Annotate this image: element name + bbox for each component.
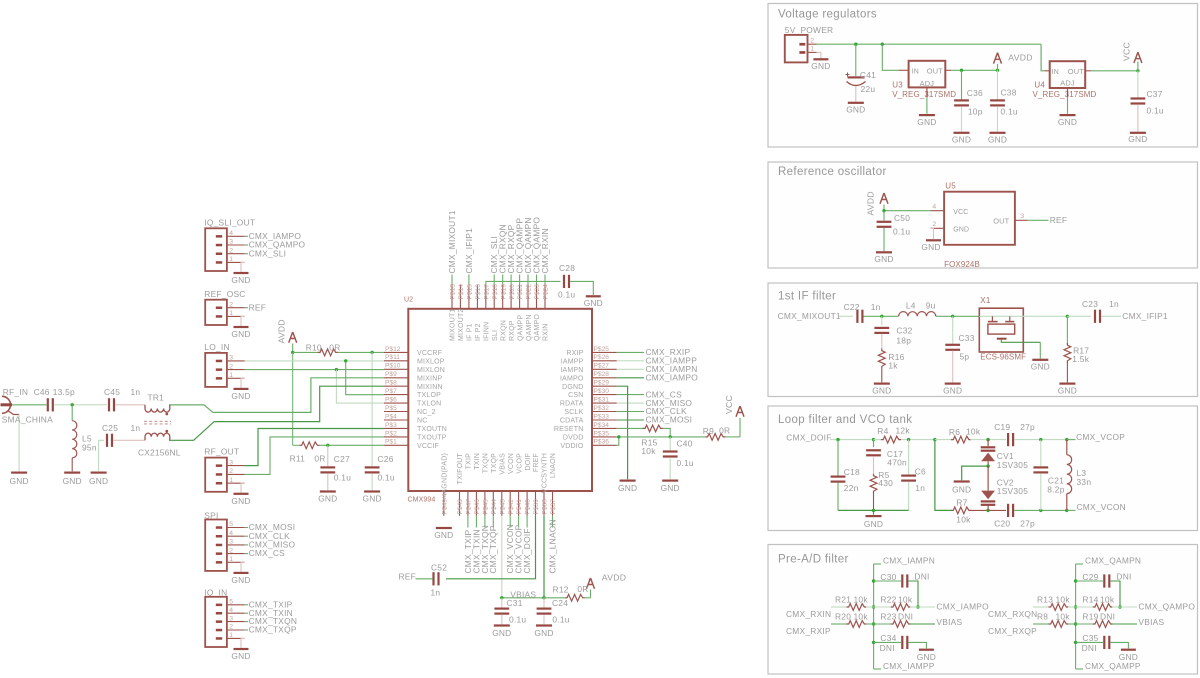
svg-text:5: 5 — [229, 599, 233, 606]
svg-text:95n: 95n — [82, 443, 97, 453]
svg-text:IN: IN — [1052, 69, 1059, 76]
svg-text:REF: REF — [1050, 215, 1068, 225]
svg-text:C37: C37 — [1147, 89, 1163, 99]
svg-text:QAMPO: QAMPO — [534, 314, 541, 341]
svg-text:VBIAS: VBIAS — [936, 617, 962, 627]
svg-text:CMX_RXIN: CMX_RXIN — [540, 228, 550, 273]
svg-text:IN: IN — [912, 68, 919, 75]
svg-text:FREF: FREF — [533, 453, 540, 472]
svg-text:R23: R23 — [880, 611, 896, 621]
svg-text:C22: C22 — [844, 302, 860, 312]
svg-text:MIXLOP: MIXLOP — [417, 358, 445, 365]
svg-text:GND: GND — [618, 483, 637, 493]
svg-text:TXOUTP: TXOUTP — [417, 435, 447, 442]
svg-text:1: 1 — [810, 46, 814, 53]
svg-text:P$16: P$16 — [475, 284, 482, 300]
svg-text:RXQP: RXQP — [509, 320, 516, 341]
svg-text:Loop filter and VCO tank: Loop filter and VCO tank — [778, 414, 912, 426]
svg-text:U4: U4 — [1034, 81, 1045, 90]
svg-text:V_REG_317SMD: V_REG_317SMD — [892, 90, 956, 99]
svg-text:CMX_IAMPP: CMX_IAMPP — [883, 661, 935, 671]
svg-text:P$34: P$34 — [594, 422, 610, 429]
svg-text:AVDD: AVDD — [866, 191, 876, 215]
svg-text:CMX_IAMPN: CMX_IAMPN — [883, 555, 935, 565]
svg-text:Reference oscillator: Reference oscillator — [778, 166, 887, 178]
svg-text:GND: GND — [952, 135, 971, 145]
svg-text:P$13: P$13 — [450, 284, 457, 300]
svg-text:VBIAS: VBIAS — [499, 453, 506, 475]
svg-text:VBIAS: VBIAS — [1138, 617, 1164, 627]
svg-text:1SV305: 1SV305 — [997, 486, 1028, 496]
svg-text:C30: C30 — [880, 572, 896, 582]
svg-text:RXIP: RXIP — [566, 350, 583, 357]
svg-text:DNI: DNI — [914, 571, 929, 581]
svg-text:10k: 10k — [854, 594, 869, 604]
svg-text:C40: C40 — [677, 439, 693, 449]
svg-text:P$5: P$5 — [385, 405, 397, 412]
svg-text:4: 4 — [229, 607, 233, 614]
svg-text:1.5k: 1.5k — [1072, 354, 1089, 364]
svg-text:1k: 1k — [888, 361, 898, 371]
svg-text:P$12: P$12 — [385, 346, 401, 353]
svg-text:DNI: DNI — [880, 643, 895, 653]
svg-text:0.1u: 0.1u — [893, 227, 910, 237]
svg-text:1n: 1n — [431, 588, 441, 598]
svg-text:R13: R13 — [1037, 594, 1053, 604]
svg-text:GND: GND — [661, 483, 680, 493]
svg-text:13.5p: 13.5p — [53, 387, 75, 397]
svg-text:DNI: DNI — [1082, 643, 1097, 653]
svg-text:C41: C41 — [860, 70, 876, 80]
svg-text:OUT: OUT — [1068, 67, 1084, 76]
svg-text:P$32: P$32 — [594, 405, 610, 412]
svg-text:1: 1 — [229, 256, 233, 263]
svg-text:R20: R20 — [835, 611, 851, 621]
svg-text:OUT: OUT — [993, 217, 1009, 226]
svg-text:P$1: P$1 — [385, 439, 397, 446]
svg-text:CMX_TXQP: CMX_TXQP — [488, 525, 498, 573]
svg-text:CMX_IFIP1: CMX_IFIP1 — [1122, 311, 1168, 321]
svg-text:1n: 1n — [131, 423, 141, 433]
svg-text:SLI: SLI — [492, 330, 499, 341]
svg-text:GND: GND — [362, 494, 381, 504]
svg-text:P$43: P$43 — [499, 499, 506, 515]
svg-text:VCCRF: VCCRF — [417, 350, 442, 357]
svg-text:1: 1 — [229, 310, 233, 317]
svg-text:27p: 27p — [1020, 518, 1035, 528]
svg-text:22n: 22n — [844, 483, 859, 493]
svg-text:0.1u: 0.1u — [1147, 106, 1164, 116]
svg-text:TXIFOUT: TXIFOUT — [457, 452, 464, 484]
svg-text:P$49/4: P$49/4 — [441, 493, 448, 514]
svg-text:P$33: P$33 — [594, 413, 610, 420]
svg-text:R11: R11 — [290, 454, 306, 464]
svg-text:CMX_MIXOUT1: CMX_MIXOUT1 — [778, 311, 841, 321]
svg-text:P$31: P$31 — [594, 397, 610, 404]
svg-text:P$28: P$28 — [594, 371, 610, 378]
svg-text:CMX_IFIP1: CMX_IFIP1 — [464, 228, 474, 274]
svg-text:0.1u: 0.1u — [677, 458, 694, 468]
svg-text:C52: C52 — [431, 563, 447, 573]
svg-text:R9: R9 — [703, 426, 714, 436]
svg-text:GND: GND — [872, 386, 891, 396]
svg-text:P$14: P$14 — [458, 284, 465, 300]
svg-text:0R: 0R — [719, 426, 730, 436]
svg-text:0.1u: 0.1u — [509, 615, 526, 625]
svg-text:GND: GND — [811, 61, 830, 71]
svg-text:VDDIO: VDDIO — [560, 443, 584, 450]
svg-text:GND: GND — [953, 227, 969, 234]
svg-text:DNI: DNI — [1116, 571, 1131, 581]
svg-text:OUT: OUT — [927, 66, 943, 75]
svg-text:C50: C50 — [894, 213, 910, 223]
svg-text:CSN: CSN — [568, 392, 583, 399]
svg-text:P$30: P$30 — [594, 388, 610, 395]
svg-text:P$6: P$6 — [385, 397, 397, 404]
svg-text:CMX_QAMPN: CMX_QAMPN — [1085, 555, 1141, 565]
svg-text:GND: GND — [63, 476, 82, 486]
svg-text:CMX_RXQP: CMX_RXQP — [988, 626, 1037, 636]
svg-text:R6: R6 — [949, 427, 960, 437]
svg-text:QAMPP: QAMPP — [517, 315, 524, 341]
svg-text:C25: C25 — [102, 423, 118, 433]
svg-text:GND: GND — [1031, 362, 1050, 372]
svg-text:1n: 1n — [1109, 299, 1119, 309]
svg-text:GND: GND — [9, 476, 28, 486]
svg-text:RF_OUT: RF_OUT — [204, 447, 239, 457]
svg-text:10k: 10k — [966, 426, 981, 436]
svg-text:GND: GND — [231, 275, 250, 285]
svg-text:1n: 1n — [871, 302, 881, 312]
svg-text:DGND: DGND — [562, 384, 583, 391]
svg-text:0R: 0R — [329, 342, 340, 352]
svg-text:GND: GND — [534, 628, 553, 638]
svg-text:R14: R14 — [1082, 594, 1098, 604]
svg-text:C31: C31 — [507, 598, 523, 608]
svg-text:GND: GND — [231, 496, 250, 506]
svg-text:RF_IN: RF_IN — [3, 387, 28, 397]
svg-text:P$39: P$39 — [533, 499, 540, 515]
svg-text:1: 1 — [229, 372, 233, 379]
svg-text:LO_IN: LO_IN — [204, 342, 229, 352]
svg-text:CMX_MOSI: CMX_MOSI — [646, 415, 693, 425]
svg-text:NC: NC — [417, 418, 428, 425]
svg-text:V_REG_317SMD: V_REG_317SMD — [1033, 90, 1097, 99]
svg-text:CMX_DOIF: CMX_DOIF — [522, 528, 532, 573]
svg-text:P$45: P$45 — [483, 499, 490, 515]
svg-text:GND: GND — [231, 329, 250, 339]
svg-text:GND: GND — [231, 575, 250, 585]
svg-text:3: 3 — [229, 539, 233, 546]
svg-text:10k: 10k — [854, 611, 869, 621]
svg-text:TXOUTN: TXOUTN — [417, 426, 447, 433]
svg-text:4: 4 — [229, 530, 233, 537]
svg-text:C29: C29 — [1082, 572, 1098, 582]
svg-text:P$38: P$38 — [542, 499, 549, 515]
svg-text:3: 3 — [229, 239, 233, 246]
svg-text:GND: GND — [584, 298, 603, 308]
svg-text:CMX_VCOP: CMX_VCOP — [1076, 432, 1125, 442]
svg-text:DNI: DNI — [898, 611, 913, 621]
svg-text:0R: 0R — [577, 584, 588, 594]
svg-text:P$8: P$8 — [385, 380, 397, 387]
svg-text:CMX994: CMX994 — [408, 497, 436, 504]
svg-text:GND: GND — [874, 254, 893, 264]
svg-text:P$4: P$4 — [385, 413, 397, 420]
svg-text:R12: R12 — [553, 585, 569, 595]
svg-text:NC_2: NC_2 — [417, 409, 436, 416]
svg-text:8.2p: 8.2p — [1047, 484, 1064, 494]
svg-text:P$48: P$48 — [457, 499, 464, 515]
svg-text:P$47: P$47 — [466, 499, 473, 515]
svg-text:12k: 12k — [896, 426, 911, 436]
svg-text:CMX_IAMPO: CMX_IAMPO — [936, 602, 989, 612]
svg-text:U5: U5 — [945, 182, 956, 191]
svg-text:1: 1 — [229, 477, 233, 484]
svg-text:R10: R10 — [306, 342, 322, 352]
svg-text:TXIP: TXIP — [466, 453, 473, 469]
svg-text:P$23: P$23 — [534, 284, 541, 300]
svg-text:RESETN: RESETN — [554, 426, 584, 433]
svg-text:IQ_SLI_OUT: IQ_SLI_OUT — [204, 217, 255, 227]
svg-text:1n: 1n — [131, 387, 141, 397]
svg-text:5V_POWER: 5V_POWER — [785, 25, 834, 35]
svg-text:C24: C24 — [552, 598, 568, 608]
svg-text:AVDD: AVDD — [1008, 53, 1032, 63]
svg-text:3: 3 — [229, 459, 233, 466]
svg-text:2: 2 — [229, 363, 233, 370]
svg-text:P$22: P$22 — [526, 284, 533, 300]
svg-text:GND: GND — [231, 391, 250, 401]
svg-text:FOX924B: FOX924B — [944, 260, 980, 269]
svg-text:ECS-96SMF: ECS-96SMF — [980, 353, 1026, 362]
svg-text:P$27: P$27 — [594, 363, 610, 370]
svg-text:C35: C35 — [1082, 633, 1098, 643]
svg-text:2: 2 — [810, 37, 814, 44]
svg-text:2: 2 — [229, 547, 233, 554]
svg-text:AVDD: AVDD — [276, 319, 286, 343]
svg-text:P$44: P$44 — [491, 499, 498, 515]
svg-text:C23: C23 — [1082, 299, 1098, 309]
svg-text:R19: R19 — [1082, 611, 1098, 621]
svg-text:P$7: P$7 — [385, 388, 397, 395]
svg-text:CMX_RXIP: CMX_RXIP — [786, 626, 831, 636]
svg-text:P$37: P$37 — [550, 499, 557, 515]
svg-text:CX2156NL: CX2156NL — [138, 448, 181, 458]
svg-text:CMX_DOIF: CMX_DOIF — [786, 433, 831, 443]
svg-text:Voltage regulators: Voltage regulators — [778, 9, 877, 21]
svg-text:VCON: VCON — [508, 453, 515, 474]
svg-text:R22: R22 — [880, 594, 896, 604]
svg-text:0R: 0R — [314, 454, 325, 464]
svg-text:C20: C20 — [994, 518, 1010, 528]
svg-text:TR1: TR1 — [148, 393, 165, 403]
svg-text:TXLOP: TXLOP — [417, 392, 441, 399]
svg-text:C46: C46 — [34, 387, 50, 397]
svg-text:VCC: VCC — [953, 209, 968, 216]
svg-text:LNAON: LNAON — [550, 453, 557, 478]
svg-text:P$9: P$9 — [385, 371, 397, 378]
svg-text:REF: REF — [249, 302, 267, 312]
svg-text:430: 430 — [878, 478, 893, 488]
svg-text:IAMPN: IAMPN — [560, 367, 583, 374]
svg-text:CMX_QAMPP: CMX_QAMPP — [1085, 661, 1141, 671]
svg-text:R7: R7 — [956, 497, 967, 507]
svg-text:P$20: P$20 — [509, 284, 516, 300]
svg-text:C33: C33 — [959, 333, 975, 343]
svg-text:P$35: P$35 — [594, 430, 610, 437]
svg-text:10k: 10k — [641, 446, 656, 456]
svg-text:0.1u: 0.1u — [334, 473, 351, 483]
svg-text:GND: GND — [1128, 134, 1147, 144]
svg-text:GND: GND — [846, 105, 865, 115]
svg-text:2: 2 — [932, 221, 936, 228]
svg-text:U3: U3 — [892, 80, 903, 89]
svg-text:0.1u: 0.1u — [552, 615, 569, 625]
svg-text:10k: 10k — [1056, 611, 1071, 621]
svg-text:10k: 10k — [898, 594, 913, 604]
svg-text:MIXOUT1: MIXOUT1 — [450, 308, 457, 341]
svg-text:SMA_CHINA: SMA_CHINA — [2, 415, 53, 425]
svg-text:2: 2 — [229, 624, 233, 631]
svg-text:C18: C18 — [844, 467, 860, 477]
svg-text:P$40: P$40 — [525, 499, 532, 515]
svg-text:GND: GND — [89, 476, 108, 486]
svg-text:GND: GND — [1058, 386, 1077, 396]
svg-text:C36: C36 — [967, 88, 983, 98]
svg-text:C34: C34 — [880, 633, 896, 643]
svg-text:0.1u: 0.1u — [1001, 107, 1018, 117]
svg-text:IFINN: IFINN — [484, 322, 491, 341]
svg-text:10k: 10k — [956, 515, 971, 525]
svg-text:GND: GND — [988, 135, 1007, 145]
svg-text:IAMPO: IAMPO — [560, 375, 584, 382]
svg-text:GND: GND — [434, 530, 453, 540]
svg-text:R4: R4 — [877, 426, 888, 436]
svg-text:C38: C38 — [1001, 88, 1017, 98]
svg-text:CMX_TXQP: CMX_TXQP — [249, 625, 297, 635]
svg-text:GND: GND — [943, 386, 962, 396]
svg-text:5p: 5p — [960, 352, 970, 362]
svg-text:DNI: DNI — [1100, 611, 1115, 621]
svg-text:33n: 33n — [1077, 477, 1092, 487]
svg-text:GND: GND — [917, 117, 936, 127]
svg-text:VCC: VCC — [1122, 42, 1132, 61]
svg-text:AVDD: AVDD — [602, 573, 626, 583]
svg-text:P$24: P$24 — [543, 284, 550, 300]
svg-text:1: 1 — [229, 632, 233, 639]
svg-text:RXQN: RXQN — [500, 320, 507, 341]
svg-text:22u: 22u — [861, 84, 876, 94]
svg-text:18p: 18p — [896, 336, 911, 346]
svg-text:ADJ: ADJ — [920, 79, 935, 88]
svg-text:VCCSYNTH: VCCSYNTH — [542, 453, 549, 493]
svg-text:3: 3 — [229, 355, 233, 362]
svg-text:1st IF filter: 1st IF filter — [778, 291, 836, 303]
svg-text:1n: 1n — [915, 483, 925, 493]
svg-text:2: 2 — [229, 247, 233, 254]
svg-text:C45: C45 — [104, 387, 120, 397]
svg-text:5: 5 — [229, 521, 233, 528]
svg-text:VCC: VCC — [724, 395, 734, 414]
svg-text:P$46: P$46 — [474, 499, 481, 515]
svg-text:3: 3 — [229, 615, 233, 622]
svg-text:GND: GND — [921, 242, 940, 252]
svg-text:0.1u: 0.1u — [558, 290, 575, 300]
svg-text:QAMPN: QAMPN — [526, 314, 533, 341]
svg-text:CMX_RXQN: CMX_RXQN — [988, 609, 1037, 619]
svg-text:1SV305: 1SV305 — [997, 460, 1028, 470]
svg-text:C19: C19 — [994, 422, 1010, 432]
svg-text:P$36: P$36 — [594, 439, 610, 446]
svg-text:C26: C26 — [378, 454, 394, 464]
svg-text:GND: GND — [492, 628, 511, 638]
svg-text:10k: 10k — [1100, 594, 1115, 604]
svg-text:TXQP: TXQP — [491, 453, 498, 473]
svg-text:GND: GND — [952, 484, 971, 494]
svg-text:0.1u: 0.1u — [378, 473, 395, 483]
svg-text:1: 1 — [229, 556, 233, 563]
svg-text:27p: 27p — [1020, 422, 1035, 432]
svg-text:IF P1: IF P1 — [467, 323, 474, 341]
svg-text:CMX_CS: CMX_CS — [249, 548, 286, 558]
svg-text:CMX_SLI: CMX_SLI — [249, 248, 287, 258]
svg-text:IF P2: IF P2 — [475, 323, 482, 341]
svg-text:CMX_VCON: CMX_VCON — [1077, 502, 1126, 512]
svg-text:DVDD: DVDD — [563, 435, 584, 442]
svg-text:VCCIF: VCCIF — [417, 443, 439, 450]
svg-text:P$41: P$41 — [516, 499, 523, 515]
svg-text:GND: GND — [318, 494, 337, 504]
svg-text:REF: REF — [399, 571, 417, 581]
svg-text:CMX_MIXOUT1: CMX_MIXOUT1 — [447, 210, 457, 273]
svg-text:3: 3 — [1020, 213, 1024, 220]
svg-text:9u: 9u — [926, 301, 936, 311]
svg-text:C32: C32 — [896, 326, 912, 336]
svg-text:TXLON: TXLON — [417, 401, 441, 408]
svg-text:SCLK: SCLK — [564, 409, 583, 416]
svg-text:MIXLON: MIXLON — [417, 367, 445, 374]
svg-text:2: 2 — [229, 301, 233, 308]
svg-text:R8: R8 — [1037, 611, 1048, 621]
svg-text:RXIN: RXIN — [543, 323, 550, 341]
svg-text:ADJ: ADJ — [1060, 79, 1075, 88]
svg-text:P$19: P$19 — [500, 284, 507, 300]
svg-text:P$26: P$26 — [594, 354, 610, 361]
svg-text:4: 4 — [229, 230, 233, 237]
svg-text:TXIN: TXIN — [474, 453, 481, 470]
svg-text:P$15: P$15 — [467, 284, 474, 300]
svg-text:P$21: P$21 — [517, 284, 524, 300]
svg-text:P$18: P$18 — [492, 284, 499, 300]
svg-text:MIXINP: MIXINP — [417, 375, 442, 382]
svg-text:REF_OSC: REF_OSC — [204, 289, 245, 299]
svg-text:MIXINN: MIXINN — [417, 384, 443, 391]
svg-text:P$10: P$10 — [385, 363, 401, 370]
svg-text:C28: C28 — [559, 263, 575, 273]
svg-text:P$2: P$2 — [385, 430, 397, 437]
svg-text:X1: X1 — [980, 296, 991, 305]
svg-text:GND: GND — [231, 651, 250, 661]
svg-text:C6: C6 — [915, 467, 926, 477]
svg-text:AGND(PAD): AGND(PAD) — [442, 453, 449, 494]
svg-text:RDATA: RDATA — [560, 401, 584, 408]
svg-text:P$17: P$17 — [483, 284, 490, 300]
svg-text:R21: R21 — [835, 594, 851, 604]
svg-text:470n: 470n — [887, 457, 907, 467]
svg-text:P$11: P$11 — [385, 354, 400, 361]
svg-text:VCOP: VCOP — [516, 453, 523, 474]
